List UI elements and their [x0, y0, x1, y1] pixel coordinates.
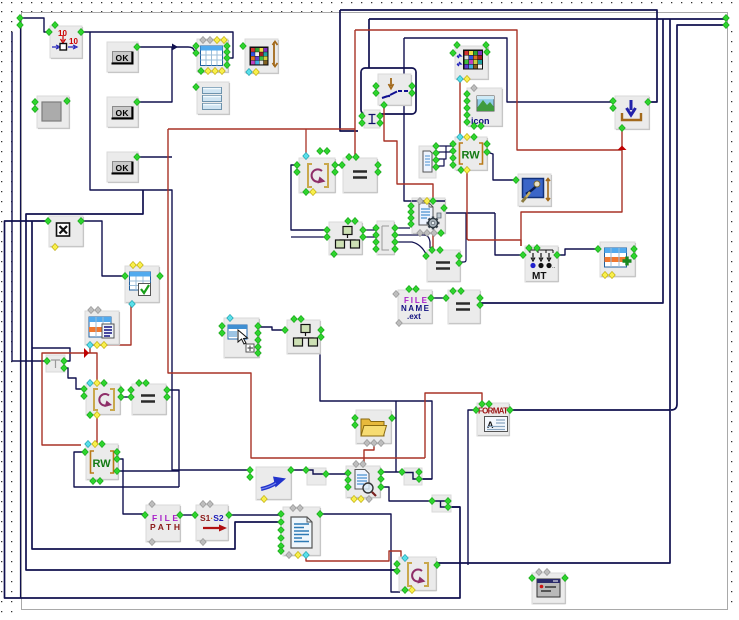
red wire: big red loop: [168, 129, 425, 458]
node: color grid with input arrows: [455, 46, 489, 80]
wire: RW2 bottom to FILE PATH: [117, 459, 145, 514]
svg-text:FORMAT: FORMAT: [478, 407, 508, 416]
wire: colorgrid frame y38 over to download input: [404, 38, 615, 102]
terminals: OK buttons: [134, 43, 141, 50]
node: copy with magnifier: [346, 466, 381, 498]
wire: left border vertical: [20, 18, 22, 598]
terminals: doc strip: [433, 142, 440, 149]
node: MT build array: [525, 246, 559, 282]
terminals: window: [536, 568, 543, 575]
terminals: S1S2: [200, 500, 207, 507]
terminals: equals3: [450, 287, 457, 294]
terminals: node2: [399, 468, 406, 475]
node: index strip: [377, 221, 395, 255]
wire: x340 drop from top run: [340, 10, 358, 131]
node: small index node 1: [307, 468, 326, 485]
terminals: table-check: [130, 261, 137, 268]
terminals: FILE PATH: [149, 500, 156, 507]
wire: equals4 right down to y470 run: [167, 390, 179, 487]
terminals: Q1: [303, 152, 310, 159]
svg-text:OK: OK: [116, 108, 130, 118]
wire: S1S2 to doc icon: [229, 514, 282, 516]
node: RW 2: [86, 444, 119, 480]
wire: switch frame loop: [361, 68, 416, 114]
node: write file (download): [615, 96, 650, 130]
red wire: FORMAT feed loop: [425, 393, 482, 458]
red wire: x355 to equals1 top: [354, 30, 356, 157]
wire: RW2 left loop: [74, 452, 179, 487]
red junction arrow2: [84, 348, 89, 358]
terminals: colorgrid2: [454, 41, 461, 48]
terminals: arrow icon: [247, 466, 254, 473]
wire: y470 chain through nodes: [291, 470, 460, 507]
node: color table function: [245, 39, 279, 74]
wire: x670 upper run: [669, 19, 671, 410]
wire: top frame run to download node: [340, 10, 657, 102]
wire: RW2 right to x179: [117, 470, 179, 472]
terminals: colorgrid1: [240, 42, 247, 49]
red wire: y240 run to MT: [468, 240, 521, 246]
node: small T terminal: [46, 355, 65, 372]
wire: FILE PATH to S1S2: [181, 514, 195, 516]
terminals: FORMAT: [479, 400, 486, 407]
terminals: table1: [200, 36, 207, 43]
wire: filename to equals3: [432, 297, 446, 299]
svg-text:..: ..: [552, 264, 556, 270]
svg-text:OK: OK: [116, 163, 130, 173]
terminals: key: [513, 176, 520, 183]
terminals: MT: [526, 244, 533, 251]
node: bundle cluster 2: [287, 320, 321, 354]
junction arrow: [172, 44, 178, 51]
red junction arrow: [618, 146, 627, 151]
node: menu-switch function: [378, 74, 412, 106]
terminals: equals2: [429, 246, 436, 253]
wire: select icon to cluster2: [258, 327, 286, 330]
red wire: Q1 cyan feed from y129: [305, 129, 307, 155]
wire: OK2 up-join to OK1 run: [138, 47, 172, 102]
wire: x663 drop to equals3 right: [481, 19, 663, 303]
node: equals 4: [132, 384, 167, 415]
node: window dialog: [532, 573, 566, 604]
wire: x32 branch to small node: [32, 348, 70, 361]
wire: folder right down to y470 run: [392, 401, 396, 472]
terminals: cluster1: [324, 226, 331, 233]
svg-text:RW: RW: [462, 150, 481, 162]
wire: third top run y25 with drop at x677 to FORMAT feed: [671, 25, 726, 410]
node: OK button 1: [107, 42, 139, 73]
wire: index strip fan to equals2: [394, 228, 430, 254]
terminals: switch: [373, 82, 380, 89]
svg-text:A: A: [487, 420, 494, 430]
wire: MT to table-plus: [558, 249, 598, 255]
red wire: download bottom chain to MT: [521, 128, 622, 246]
wire: equals2 right feed: [460, 213, 466, 262]
node: open VI reference (doc with gear): [412, 198, 446, 234]
red wire: report icon to Q2 chain: [42, 345, 97, 445]
node: equals 2: [427, 250, 461, 282]
wire: big left loop from sizer branch down left edge to Q3 left: [26, 190, 396, 570]
red wire: colorgrid2 to RW1: [459, 79, 461, 136]
node: equals 3: [448, 290, 481, 324]
terminals: X icon: [45, 217, 52, 224]
node: small index node 3: [432, 495, 451, 512]
svg-text:PATH: PATH: [150, 522, 180, 532]
wire: x12 drop to small node: [12, 32, 46, 361]
red wire: Q2 to RW2: [96, 415, 98, 444]
svg-text:OK: OK: [116, 53, 130, 63]
red wire: doc-gear bottom to equals2 top: [432, 233, 434, 249]
wire: index strip2 fan to RW1: [436, 146, 453, 166]
wire: outer bottom loop X-icon to node3: [5, 221, 461, 598]
wire: second top run to right edge diamond: [369, 18, 726, 20]
terminals: Q3: [402, 554, 409, 561]
wire: sizer branch down to arrow icon left: [90, 32, 250, 470]
red wire: y129 run: [168, 128, 355, 130]
wire: cluster1 to index strip: [291, 230, 377, 237]
node: OK button 2: [107, 97, 139, 128]
terminals: Q2: [87, 379, 94, 386]
node: convert arrow: [256, 467, 292, 500]
wire: X icon to table-check: [81, 221, 124, 276]
terminals: sizer node: [52, 21, 59, 28]
terminals: copy: [353, 460, 360, 467]
node: folder: [356, 410, 392, 444]
red wire: switch to doc-gear: [384, 105, 433, 199]
terminals: download: [610, 97, 617, 104]
svg-text:S1·S2: S1·S2: [200, 513, 224, 523]
wire: Q2 to equals4: [121, 396, 132, 398]
node: while-loop Q 2: [86, 384, 121, 415]
terminals: table-plus: [595, 245, 602, 252]
red wire: RW1 bottom down: [467, 171, 469, 240]
node: lined document: [283, 507, 321, 556]
wire: x369 drop to switch frame: [368, 19, 370, 68]
node: while-loop Q 1: [299, 158, 336, 193]
wire: OK3 join down: [138, 156, 172, 158]
wire: OK1 to table1 left: [138, 47, 196, 52]
wire: FORMAT left drop to y565: [468, 410, 476, 565]
wire: sizer output to table1 right side: [82, 32, 233, 58]
node: set-size 10x10: [50, 26, 83, 59]
wire: FORMAT right to right loop down to Q3: [437, 410, 670, 563]
node: registry key: [518, 174, 552, 207]
node: add table row: [600, 242, 636, 277]
node: table control terminal: [197, 39, 229, 73]
red wire: y30 run to x517 drop to y150: [355, 30, 622, 150]
terminals: I node: [359, 112, 366, 119]
wire: doc icon right loop down to Q3 bottom: [321, 514, 400, 592]
terminals: select: [227, 314, 234, 321]
terminals: equals1: [346, 153, 353, 160]
wire: cluster2 down to folder left: [320, 354, 432, 479]
node: index terminal small: [364, 110, 380, 128]
node: bundle cluster 1: [329, 222, 363, 255]
svg-text:MT: MT: [532, 271, 546, 282]
node: listbox symbol: [197, 82, 230, 115]
node: filename constant: [398, 290, 433, 324]
node: small index node 2: [404, 468, 422, 485]
node: equals 1: [343, 158, 378, 193]
terminals: listbox: [193, 83, 200, 90]
red wire: folder to copy icon: [364, 443, 374, 465]
terminals: doc icon: [290, 504, 297, 511]
node: FILE PATH constant: [146, 505, 181, 542]
terminals: doc-gear: [417, 197, 424, 204]
terminals: folder: [352, 414, 359, 421]
terminals: frame top-left: [17, 14, 24, 21]
terminals: index strip: [373, 224, 380, 231]
node: drag-select table: [224, 318, 260, 358]
node: while-loop Q 3: [399, 557, 437, 591]
wire: x404 drop to doc-gear left: [404, 38, 495, 213]
node: small doc strip: [419, 146, 436, 178]
wire: Q1 to equals1: [336, 164, 343, 166]
terminals: RW1: [457, 133, 464, 140]
node: table with checkmark: [125, 266, 160, 303]
wire: RW1 right to key icon: [487, 152, 516, 180]
wire: small node zigzag to Q2 left: [64, 368, 83, 389]
terminals: filename: [393, 290, 400, 297]
svg-text:.ext: .ext: [407, 312, 421, 321]
svg-text:10: 10: [69, 37, 78, 46]
terminals: right edge: [723, 14, 730, 21]
terminals: node1: [303, 466, 310, 473]
node: OK button 3: [107, 152, 139, 183]
node: report table: [85, 311, 120, 345]
node: icon picture: [467, 88, 503, 127]
terminals: node3: [429, 497, 436, 504]
red wire: table-check to report icon: [90, 304, 131, 345]
node: cancel X constant: [49, 216, 84, 247]
terminals: cluster2: [282, 326, 289, 333]
terminals: icon picture: [471, 84, 478, 91]
terminals: RW2: [85, 440, 92, 447]
terminals: report: [88, 306, 95, 313]
wire: doc-gear to MT: [495, 213, 523, 255]
wire: Q1 left drop to cluster1: [291, 165, 327, 230]
terminals: gray square: [32, 98, 39, 105]
wire: node brackets: [307, 470, 448, 507]
red wire: doc icon to Q3: [306, 551, 401, 561]
terminals: equals4: [136, 379, 143, 386]
svg-text:RW: RW: [93, 458, 112, 470]
node: RW open-replace: [455, 137, 488, 171]
terminals: small T node: [44, 357, 51, 364]
wire: inner bottom loop to doc icon left: [32, 221, 282, 549]
wire: sizer input from top-left diamonds: [20, 18, 50, 32]
node: FORMAT into string: [477, 403, 510, 436]
node: gray square constant: [37, 96, 70, 129]
node: S1 S2 string function: [196, 505, 229, 541]
